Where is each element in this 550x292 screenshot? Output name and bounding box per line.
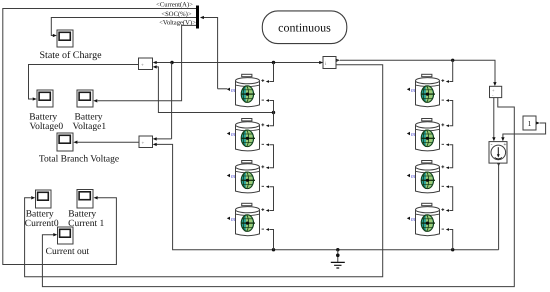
port - of B6 [442,143,444,145]
block U1 (two-input measure, feeds Battery Voltage0) [139,58,153,70]
svg-text:<Current(A)>: <Current(A)> [156,1,193,8]
wire U3 input arrow [319,61,323,64]
bus selector bar [196,6,199,29]
port m of B5 [407,88,416,94]
constant block "1" [523,116,536,130]
wire U2 output to Total Branch Voltage [73,141,139,144]
wire U1 in2 from chain mid node [153,65,275,114]
svg-text:Voltage0: Voltage0 [29,122,63,132]
battery cell B4 [236,203,260,235]
svg-text:+: + [503,142,506,148]
block U3 (series measure in top rail) [323,57,336,69]
svg-text:Battery: Battery [75,112,103,122]
wire U3 out2 to Battery Current0 [25,65,383,277]
svg-text:m: m [411,132,416,138]
scope Battery Current0 [36,190,52,208]
block U4 (feeds source and Current out) [490,82,502,98]
svg-text:m: m [411,174,416,180]
svg-text:Current0: Current0 [25,219,59,229]
svg-text:m: m [231,174,236,180]
battery cell B2 [236,119,260,151]
svg-text:m: m [231,132,236,138]
wire constant 1 to current source input [501,121,545,141]
battery cell B5 [416,74,440,106]
svg-text:Battery: Battery [29,112,57,122]
wire battery m to bus selector input [200,16,228,89]
wire Current(A) to Battery Current 1 [3,9,196,265]
svg-text:m: m [231,88,236,94]
wire battery series chain at x=452.7 [446,60,453,249]
wire current source output to ground rail [497,163,500,250]
battery cell B3 [236,161,260,193]
scope Battery Current 1 [77,190,93,209]
port - of B8 [442,228,444,230]
svg-text:m: m [411,88,416,94]
port - of B4 [262,228,264,230]
wire battery series chain at x=273.5 [266,63,274,250]
port + of B5 [441,79,444,82]
port + of B4 [261,208,264,211]
svg-text:continuous: continuous [278,20,331,34]
port m of B6 [407,132,416,138]
wire SOC to State of Charge scope [51,18,196,38]
wire U3 out1 rail to summing block [336,59,495,84]
svg-text:+: + [142,142,145,147]
battery cell B6 [416,119,440,151]
svg-text:Battery: Battery [68,209,96,219]
block U2 (two-input measure, feeds Total Branch Voltage) [139,136,153,148]
scope Battery Voltage0 [37,90,53,107]
svg-text:Current 1: Current 1 [68,219,104,229]
port - of B7 [442,185,444,187]
scope Battery Voltage1 [77,90,93,107]
wire U4 out2 to Current out scope [42,98,514,287]
controlled current source U5 [489,142,507,164]
svg-text:Total Branch Voltage: Total Branch Voltage [39,154,119,164]
node rail top (U1 in1 to U3) [153,61,320,64]
svg-text:<SOC(%)>: <SOC(%)> [161,11,191,18]
port m of B7 [407,174,416,180]
port + of B6 [441,123,444,126]
port + of B1 [261,79,264,82]
port - of B3 [262,185,264,187]
port m of B8 [407,217,416,223]
wire U2 in1 from top rail node [153,63,172,141]
port - of B1 [262,99,264,101]
scope Current out [58,227,74,244]
wire U4 out1 to current source control [492,98,495,142]
svg-text:-: - [491,142,493,148]
wire U1 output to Battery Voltage0 [29,65,139,101]
port + of B3 [261,165,264,168]
port m of B2 [227,132,236,138]
svg-text:+: + [141,64,144,69]
svg-text:m: m [411,217,416,223]
powergui block "continuous" [262,11,347,44]
battery cell B7 [416,161,440,193]
port + of B2 [261,123,264,126]
svg-text:m: m [231,217,236,223]
svg-text:Battery: Battery [26,209,54,219]
svg-text:State of Charge: State of Charge [39,50,102,61]
port m of B1 [227,88,236,94]
port + of B7 [441,165,444,168]
svg-text:Voltage1: Voltage1 [72,122,106,132]
scope State of Charge [57,30,73,47]
battery cell B8 [416,203,440,235]
port m of B3 [227,174,236,180]
port - of B5 [442,99,444,101]
wire Voltage(V) to Battery Voltage1 [93,25,196,102]
port m of B4 [227,217,236,223]
wire U2 in2 from bottom rail / ground net [153,143,499,252]
battery cell B1 [236,74,260,106]
port - of B2 [262,143,264,145]
svg-text:1: 1 [528,119,532,128]
svg-text:Current out: Current out [46,247,90,257]
scope Total Branch Voltage [57,133,73,151]
ground symbol [331,250,345,268]
port + of B8 [441,208,444,211]
